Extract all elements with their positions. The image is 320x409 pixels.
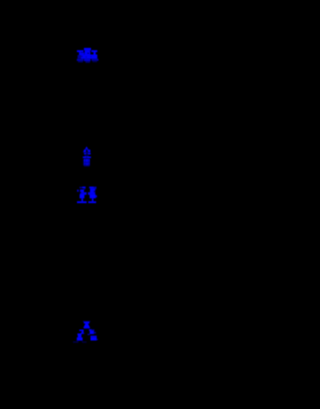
bottom-right pawn <box>91 336 97 338</box>
right cross stem <box>94 52 96 55</box>
left blob <box>81 52 84 54</box>
dark notch in center body <box>87 53 88 55</box>
fringe below <box>73 341 79 343</box>
cluster A: three blue tower/cross shapes <box>77 48 99 63</box>
cluster C: two goblet shapes <box>77 187 97 204</box>
right cross bar <box>91 50 97 52</box>
bottom-left pawn <box>77 333 81 335</box>
cluster B: lighthouse / rocket shape <box>83 146 91 166</box>
bottom fringe <box>77 59 84 61</box>
center tower body <box>85 50 91 55</box>
right goblet <box>89 187 93 189</box>
cluster D: pyramid of five pawn shapes <box>73 321 98 343</box>
center tower cap <box>84 48 91 50</box>
mid-left pawn <box>79 330 83 332</box>
left goblet <box>80 187 83 188</box>
left cross stem <box>79 52 81 55</box>
top pawn <box>83 321 90 322</box>
wide bright band <box>81 55 98 59</box>
left cross bar <box>77 50 84 52</box>
mid-right pawn <box>89 329 92 331</box>
